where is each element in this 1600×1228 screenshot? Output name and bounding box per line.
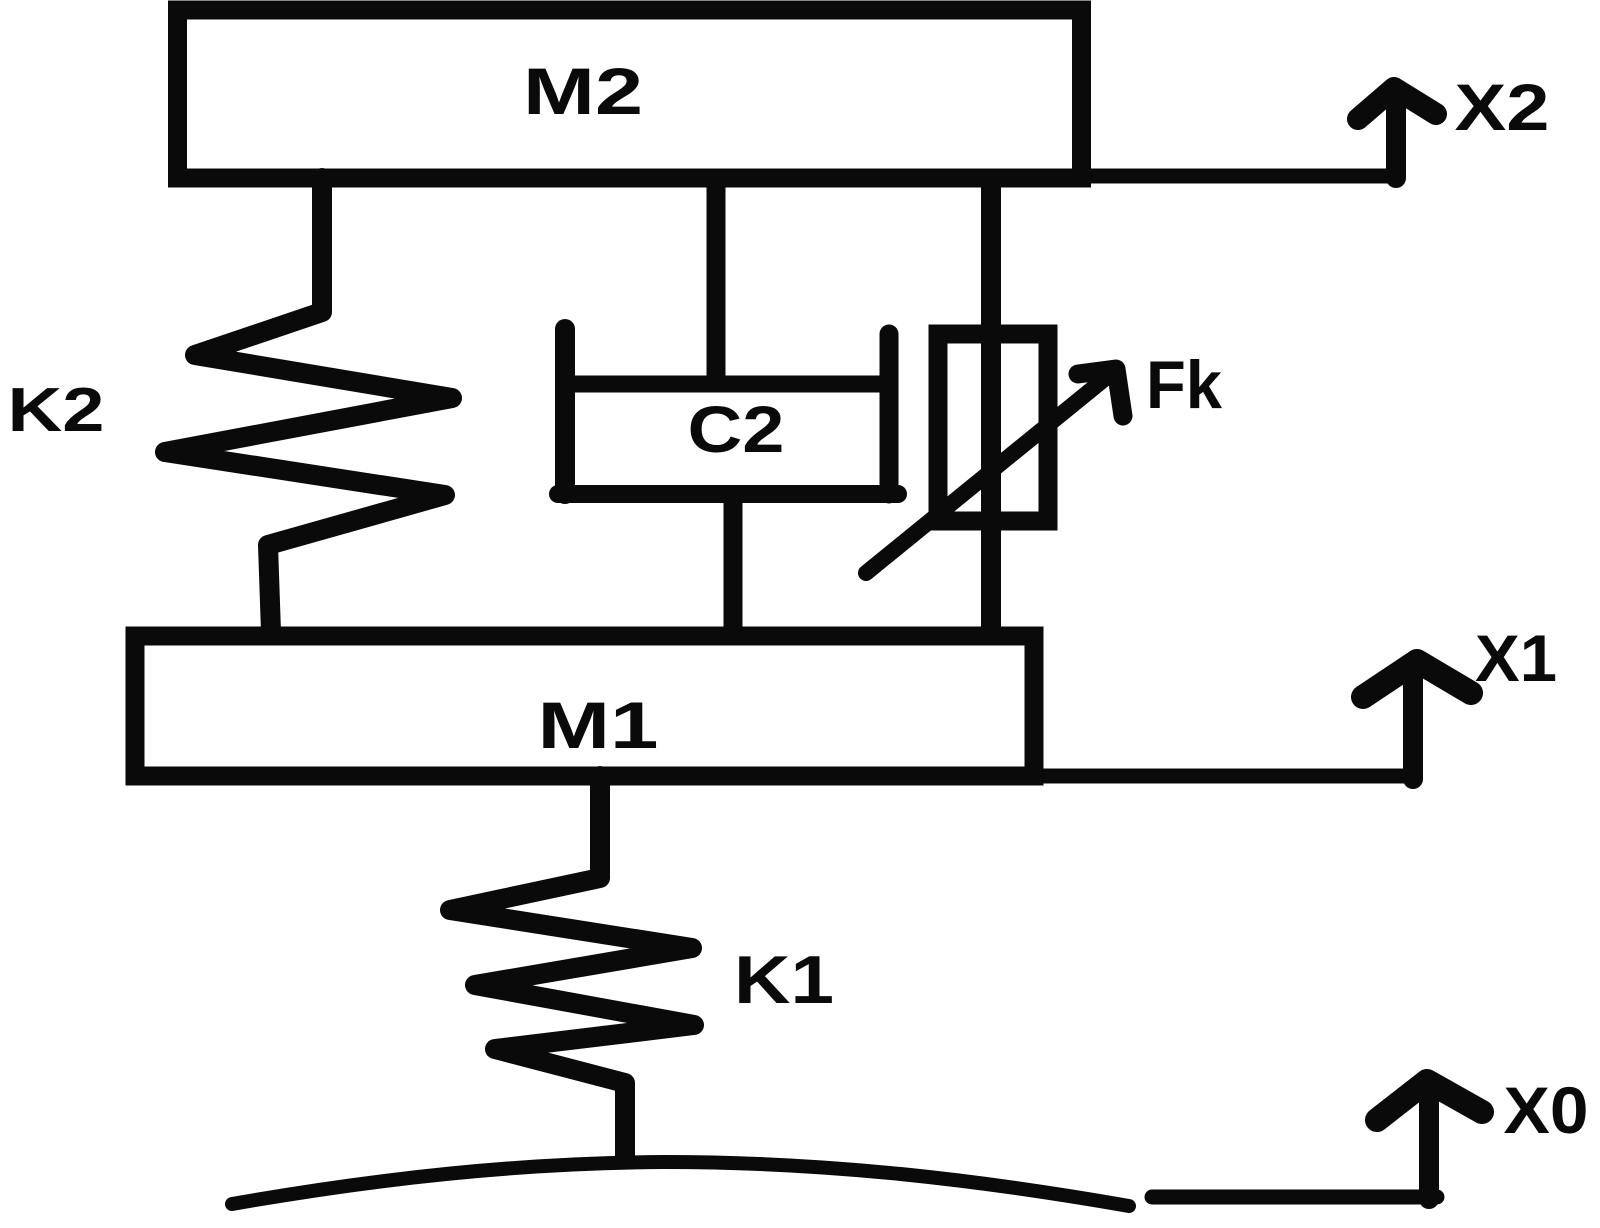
svg-text:X2: X2 bbox=[1455, 70, 1550, 144]
svg-text:C2: C2 bbox=[688, 392, 785, 466]
svg-text:M1: M1 bbox=[538, 688, 659, 762]
svg-text:X0: X0 bbox=[1504, 1073, 1589, 1147]
svg-text:Fk: Fk bbox=[1146, 347, 1222, 423]
svg-text:K1: K1 bbox=[734, 942, 834, 1018]
svg-text:K2: K2 bbox=[8, 376, 105, 445]
svg-text:M2: M2 bbox=[523, 54, 643, 128]
svg-text:X1: X1 bbox=[1475, 621, 1557, 695]
